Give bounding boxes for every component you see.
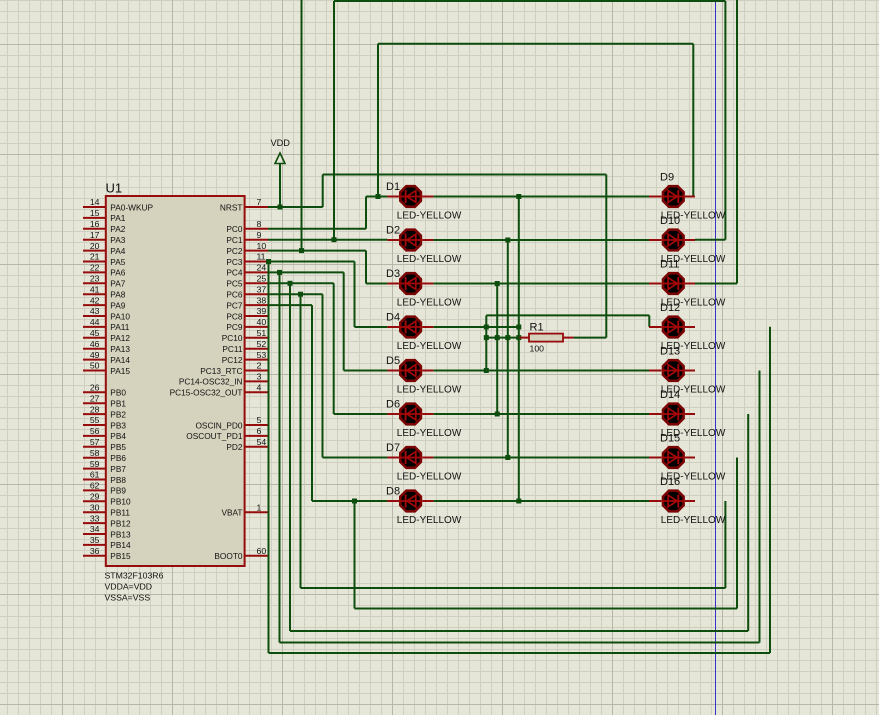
svg-text:PA5: PA5	[110, 257, 125, 267]
U1 pin 11 PC3	[226, 252, 268, 267]
junction VDD stem on NRST wire	[278, 205, 283, 210]
LED D14 LED-YELLOW	[649, 389, 726, 439]
U1 pin 58 PB6	[83, 448, 126, 463]
svg-text:VDD: VDD	[271, 138, 291, 148]
svg-text:34: 34	[90, 524, 100, 534]
U1 pin 51 PC10	[222, 328, 268, 343]
U1 pin 1 VBAT	[221, 502, 268, 517]
svg-text:PA11: PA11	[110, 322, 129, 332]
svg-text:17: 17	[90, 230, 100, 240]
svg-text:44: 44	[90, 317, 100, 327]
svg-text:61: 61	[90, 470, 100, 480]
wire PC2 to D3	[268, 251, 387, 284]
svg-text:PC5: PC5	[226, 279, 243, 289]
wire PC6 bottom route to D16 cathode	[301, 294, 726, 588]
LED D12 LED-YELLOW	[649, 302, 726, 352]
svg-text:11: 11	[257, 252, 266, 262]
resistor R1 100	[520, 322, 574, 354]
svg-text:9: 9	[257, 230, 262, 240]
svg-text:VSSA=VSS: VSSA=VSS	[105, 593, 151, 603]
U1 pin 10 PC2	[226, 241, 268, 256]
svg-text:59: 59	[90, 459, 100, 469]
junction D8 row branch	[352, 499, 357, 504]
wire D1 anode to D9 anode	[433, 196, 649, 198]
svg-text:21: 21	[90, 252, 100, 262]
svg-text:PB8: PB8	[110, 475, 126, 485]
wire PC3 to D4	[268, 262, 387, 328]
svg-text:PB10: PB10	[110, 497, 131, 507]
svg-text:PA14: PA14	[110, 355, 130, 365]
svg-text:D13: D13	[660, 346, 680, 358]
svg-text:30: 30	[90, 502, 100, 512]
junction PC5 branch	[288, 281, 293, 286]
U1 pin 29 PB10	[83, 492, 131, 507]
LED D4 LED-YELLOW	[386, 312, 462, 352]
wire anode bus vertical D	[518, 197, 520, 502]
svg-text:PC4: PC4	[226, 268, 243, 278]
U1 pin 46 PA13	[83, 339, 130, 354]
junction anode bus at R1 row	[484, 335, 522, 340]
wire D6 anode to D14 anode	[433, 413, 649, 415]
wire PC6 to D7	[268, 294, 387, 457]
svg-text:PA6: PA6	[110, 268, 125, 278]
U1 pin 52 PC11	[222, 339, 268, 354]
svg-text:3: 3	[257, 372, 262, 382]
svg-text:PA2: PA2	[110, 224, 125, 234]
svg-text:D4: D4	[386, 312, 400, 324]
svg-text:PD2: PD2	[226, 442, 243, 452]
sheet border line	[715, 0, 717, 715]
svg-text:33: 33	[90, 513, 100, 523]
U1 pin 37 PC6	[226, 284, 268, 299]
wire PC3 bottom route to D12 cathode	[269, 262, 771, 654]
U1 pin 59 PB7	[83, 459, 126, 474]
svg-text:PA0-WKUP: PA0-WKUP	[110, 202, 153, 212]
junction PC4 branch	[277, 270, 282, 275]
U1 pin 44 PA11	[83, 317, 130, 332]
U1 pin 27 PB1	[83, 393, 126, 408]
svg-text:PA8: PA8	[110, 290, 125, 300]
LED D7 LED-YELLOW	[386, 442, 462, 482]
wire PC1 top rail to D10 cathode	[334, 1, 725, 240]
svg-text:PC7: PC7	[226, 300, 243, 310]
svg-text:35: 35	[90, 535, 100, 545]
svg-text:37: 37	[257, 284, 267, 294]
svg-text:R1: R1	[530, 322, 544, 334]
wire NRST net: pin7 to VDD rail	[268, 175, 606, 338]
svg-text:52: 52	[257, 339, 267, 349]
svg-text:PB1: PB1	[110, 399, 126, 409]
svg-text:54: 54	[257, 437, 267, 447]
U1 pin 34 PB13	[83, 524, 131, 539]
svg-text:D5: D5	[386, 355, 400, 367]
svg-text:LED-YELLOW: LED-YELLOW	[397, 341, 462, 352]
U1 pin 17 PA3	[83, 230, 126, 245]
U1 pin 40 PC9	[226, 317, 268, 332]
wire anode bus vertical A	[485, 315, 487, 370]
svg-text:PB9: PB9	[110, 486, 126, 496]
U1 pin 6 OSCOUT_PD1	[186, 426, 268, 441]
LED D11 LED-YELLOW	[649, 259, 726, 309]
wire PC0 top rail to D9 cathode	[378, 44, 693, 197]
svg-text:62: 62	[90, 481, 100, 491]
svg-text:U1: U1	[106, 181, 123, 196]
svg-text:58: 58	[90, 448, 100, 458]
U1 pin 38 PC7	[226, 295, 268, 310]
svg-text:14: 14	[90, 197, 100, 207]
svg-text:1: 1	[257, 502, 262, 512]
svg-text:16: 16	[90, 219, 100, 229]
svg-text:50: 50	[90, 361, 100, 371]
svg-text:PB13: PB13	[110, 529, 131, 539]
svg-text:7: 7	[257, 197, 262, 207]
svg-text:PA15: PA15	[110, 366, 130, 376]
svg-text:PC11: PC11	[222, 344, 243, 354]
wire anode bus to R1	[486, 337, 519, 339]
svg-text:38: 38	[257, 295, 267, 305]
svg-text:D12: D12	[660, 302, 680, 314]
svg-text:46: 46	[90, 339, 100, 349]
svg-text:PC2: PC2	[226, 246, 243, 256]
U1 pin 21 PA5	[83, 252, 126, 267]
U1 pin 25 PC5	[226, 274, 268, 289]
U1 pin 43 PA10	[83, 306, 130, 321]
svg-text:PA12: PA12	[110, 333, 130, 343]
U1 pin 60 BOOT0	[214, 546, 268, 561]
svg-text:LED-YELLOW: LED-YELLOW	[397, 515, 462, 526]
svg-text:39: 39	[257, 306, 267, 316]
wire anode bus vertical B	[496, 284, 498, 415]
U1 pin 16 PA2	[83, 219, 126, 234]
svg-text:PB3: PB3	[110, 420, 126, 430]
svg-text:57: 57	[90, 437, 100, 447]
svg-text:PB0: PB0	[110, 388, 126, 398]
LED D9 LED-YELLOW	[649, 172, 726, 222]
wire D4 anode row	[433, 326, 518, 328]
svg-text:100: 100	[530, 344, 545, 354]
svg-text:36: 36	[90, 546, 100, 556]
svg-text:26: 26	[90, 383, 100, 393]
wire PC0 to D1	[268, 197, 387, 229]
U1 pin 28 PB2	[83, 404, 126, 419]
U1 pin 3 PC14-OSC32_IN	[179, 372, 268, 387]
U1 pin 23 PA7	[83, 274, 126, 289]
U1 pin 45 PA12	[83, 328, 130, 343]
svg-text:PC0: PC0	[226, 224, 243, 234]
wire D12 anode detour	[486, 315, 649, 326]
junction PC0 rail on D1 lead	[376, 194, 381, 199]
svg-text:PA3: PA3	[110, 235, 125, 245]
junction PC1 rail on D2 wire	[332, 237, 337, 242]
svg-text:PC15-OSC32_OUT: PC15-OSC32_OUT	[170, 388, 243, 398]
LED D6 LED-YELLOW	[386, 399, 462, 439]
svg-text:PC3: PC3	[226, 257, 243, 267]
svg-text:PC13_RTC: PC13_RTC	[200, 366, 242, 376]
wire D8 anode to D16 anode	[433, 500, 649, 502]
svg-text:23: 23	[90, 274, 100, 284]
svg-text:OSCOUT_PD1: OSCOUT_PD1	[186, 431, 243, 441]
svg-text:PB14: PB14	[110, 540, 131, 550]
svg-text:29: 29	[90, 492, 100, 502]
svg-text:27: 27	[90, 393, 100, 403]
svg-text:D16: D16	[660, 476, 680, 488]
svg-text:45: 45	[90, 328, 100, 338]
svg-text:LED-YELLOW: LED-YELLOW	[397, 428, 462, 439]
svg-text:LED-YELLOW: LED-YELLOW	[661, 515, 726, 526]
U1 pin 5 OSCIN_PD0	[195, 415, 268, 430]
U1 pin 7 NRST	[220, 197, 268, 212]
svg-text:PA4: PA4	[110, 246, 125, 256]
svg-text:PB2: PB2	[110, 409, 126, 419]
wire PC2 top rail to D11 cathode	[302, 0, 738, 284]
svg-text:PB6: PB6	[110, 453, 126, 463]
junction PC6 branch	[298, 292, 303, 297]
svg-text:OSCIN_PD0: OSCIN_PD0	[195, 420, 242, 430]
svg-text:D6: D6	[386, 399, 400, 411]
svg-text:60: 60	[257, 546, 267, 556]
svg-text:51: 51	[257, 328, 267, 338]
junction anode bus on LED rows	[484, 194, 522, 504]
svg-text:2: 2	[257, 361, 262, 371]
U1 pin 20 PA4	[83, 241, 126, 256]
svg-text:42: 42	[90, 295, 100, 305]
svg-text:PA9: PA9	[110, 300, 125, 310]
svg-text:6: 6	[257, 426, 262, 436]
wire PC4 bottom route to D13 cathode	[280, 272, 760, 642]
svg-text:PB12: PB12	[110, 518, 131, 528]
U1 pin 50 PA15	[83, 361, 130, 376]
svg-text:PC12: PC12	[222, 355, 243, 365]
svg-text:20: 20	[90, 241, 100, 251]
junction PC2 rail on PC2 wire	[299, 248, 304, 253]
U1 pin 41 PA8	[83, 284, 126, 299]
svg-text:D1: D1	[386, 181, 400, 193]
svg-text:PA1: PA1	[110, 213, 125, 223]
LED D3 LED-YELLOW	[386, 268, 462, 308]
svg-text:25: 25	[257, 274, 267, 284]
svg-text:PB4: PB4	[110, 431, 126, 441]
svg-text:D8: D8	[386, 486, 400, 498]
svg-text:24: 24	[257, 263, 267, 273]
svg-text:LED-YELLOW: LED-YELLOW	[397, 384, 462, 395]
svg-text:LED-YELLOW: LED-YELLOW	[397, 254, 462, 265]
svg-text:15: 15	[90, 208, 100, 218]
svg-text:D3: D3	[386, 268, 400, 280]
svg-text:49: 49	[90, 350, 100, 360]
wire PC5 to D6	[268, 283, 387, 414]
chip U1 STM32F103R6 body	[105, 181, 245, 603]
svg-text:D11: D11	[660, 259, 679, 271]
U1 pin 42 PA9	[83, 295, 126, 310]
svg-text:43: 43	[90, 306, 100, 316]
svg-text:10: 10	[257, 241, 267, 251]
svg-text:D9: D9	[660, 172, 674, 184]
LED D13 LED-YELLOW	[649, 346, 726, 396]
svg-text:PC9: PC9	[226, 322, 243, 332]
svg-text:PC10: PC10	[222, 333, 243, 343]
wire PC7 to D8	[268, 305, 387, 501]
svg-text:PB7: PB7	[110, 464, 126, 474]
svg-text:PB5: PB5	[110, 442, 126, 452]
svg-text:VBAT: VBAT	[221, 508, 242, 518]
svg-text:STM32F103R6: STM32F103R6	[105, 571, 164, 581]
svg-text:LED-YELLOW: LED-YELLOW	[397, 471, 462, 482]
wire D7 anode to D15 anode	[433, 457, 649, 459]
LED D2 LED-YELLOW	[386, 225, 462, 265]
LED D8 LED-YELLOW	[386, 486, 462, 526]
svg-text:PC14-OSC32_IN: PC14-OSC32_IN	[179, 377, 243, 387]
U1 pin 36 PB15	[83, 546, 131, 561]
U1 pin 56 PB4	[83, 426, 126, 441]
junction PC3 pin branch	[266, 259, 271, 264]
svg-text:PC1: PC1	[226, 235, 243, 245]
U1 pin 33 PB12	[83, 513, 131, 528]
svg-text:PA13: PA13	[110, 344, 130, 354]
U1 pin 49 PA14	[83, 350, 130, 365]
wire PC1 to D2	[268, 239, 387, 241]
U1 pin 39 PC8	[226, 306, 268, 321]
svg-text:PB11: PB11	[110, 508, 130, 518]
U1 pin 61 PB8	[83, 470, 126, 485]
wire anode bus vertical C	[507, 240, 509, 458]
svg-text:8: 8	[257, 219, 262, 229]
U1 pin 9 PC1	[226, 230, 268, 245]
svg-text:NRST: NRST	[220, 202, 243, 212]
svg-text:BOOT0: BOOT0	[214, 551, 243, 561]
svg-text:VDDA=VDD: VDDA=VDD	[105, 582, 153, 592]
svg-text:PA10: PA10	[110, 311, 130, 321]
svg-text:41: 41	[90, 284, 100, 294]
wire PC7/D8 bottom route to D15 cathode	[355, 458, 738, 609]
U1 pin 4 PC15-OSC32_OUT	[170, 383, 268, 398]
LED D1 LED-YELLOW	[386, 181, 462, 221]
svg-text:28: 28	[90, 404, 100, 414]
LED D5 LED-YELLOW	[386, 355, 462, 395]
svg-text:D14: D14	[660, 389, 680, 401]
svg-text:PC6: PC6	[226, 290, 243, 300]
svg-text:53: 53	[257, 350, 267, 360]
wire D5 anode to D13 anode	[433, 370, 649, 372]
U1 pin 54 PD2	[226, 437, 268, 452]
U1 pin 30 PB11	[83, 502, 130, 517]
U1 pin 8 PC0	[226, 219, 268, 234]
LED D10 LED-YELLOW	[649, 215, 726, 265]
U1 pin 24 PC4	[226, 263, 268, 278]
svg-text:22: 22	[90, 263, 100, 273]
svg-text:PA7: PA7	[110, 279, 125, 289]
U1 pin 15 PA1	[83, 208, 126, 223]
U1 pin 14 PA0-WKUP	[83, 197, 153, 212]
svg-text:D2: D2	[386, 225, 400, 237]
U1 pin 22 PA6	[83, 263, 126, 278]
wire D3 anode to D11 anode	[433, 283, 649, 285]
svg-text:PB15: PB15	[110, 551, 131, 561]
power symbol VDD	[271, 138, 291, 207]
svg-text:56: 56	[90, 426, 100, 436]
U1 pin 57 PB5	[83, 437, 126, 452]
svg-text:LED-YELLOW: LED-YELLOW	[397, 297, 462, 308]
svg-text:40: 40	[257, 317, 267, 327]
svg-text:D10: D10	[660, 215, 680, 227]
U1 pin 62 PB9	[83, 481, 126, 496]
svg-text:5: 5	[257, 415, 262, 425]
wire PC5 bottom route to D14 cathode	[290, 283, 748, 631]
LED D15 LED-YELLOW	[649, 433, 726, 483]
U1 pin 55 PB3	[83, 415, 126, 430]
U1 pin 53 PC12	[222, 350, 268, 365]
svg-text:D15: D15	[660, 433, 680, 445]
U1 pin 26 PB0	[83, 383, 126, 398]
wire D2 anode to D10 anode	[433, 239, 649, 241]
U1 pin 2 PC13_RTC	[200, 361, 268, 376]
svg-text:LED-YELLOW: LED-YELLOW	[397, 210, 462, 221]
LED D16 LED-YELLOW	[649, 476, 726, 526]
svg-text:4: 4	[257, 383, 262, 393]
svg-text:PC8: PC8	[226, 311, 243, 321]
svg-text:55: 55	[90, 415, 100, 425]
svg-text:D7: D7	[386, 442, 400, 454]
U1 pin 35 PB14	[83, 535, 131, 550]
wire PC4 to D5	[268, 272, 387, 370]
